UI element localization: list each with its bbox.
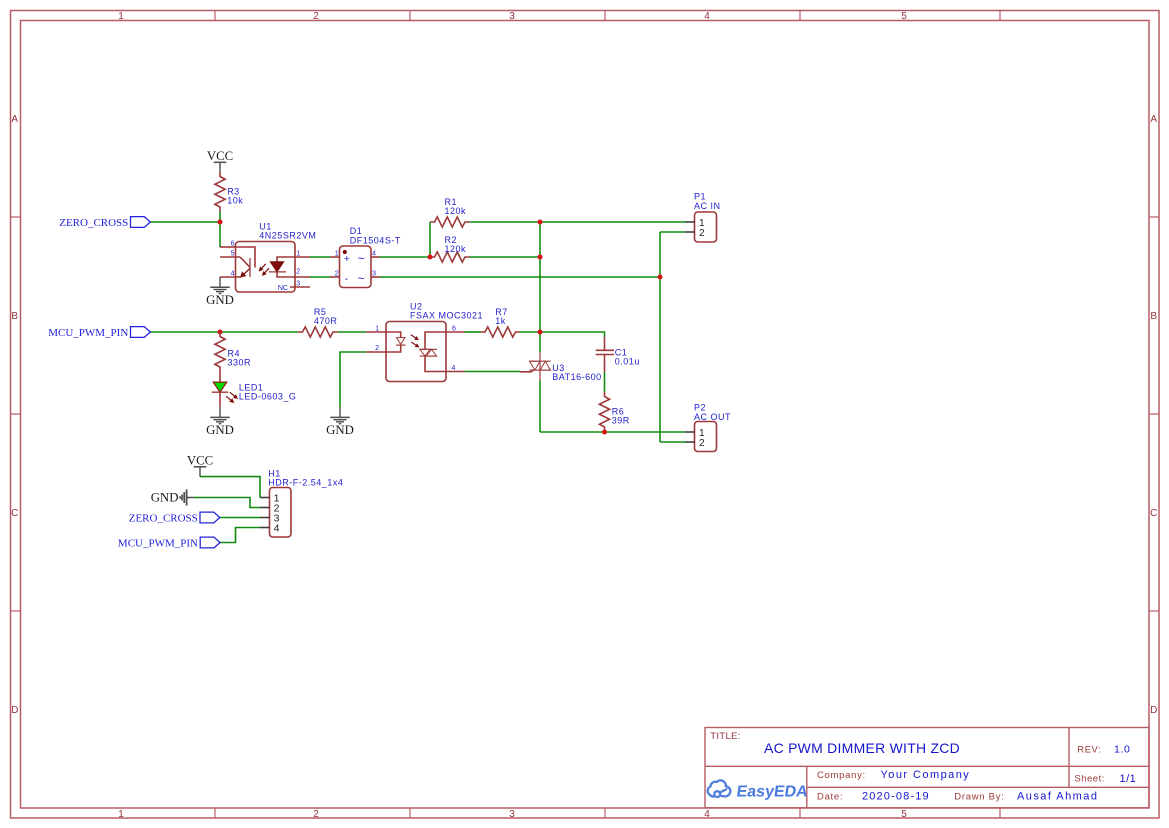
title block outline [705,728,1149,808]
frame column ticks bottom [214,808,216,818]
optocoupler U2 body [386,322,446,382]
svg-text:D: D [1150,705,1157,716]
svg-text:2: 2 [335,268,339,277]
capacitor C1 [604,337,606,351]
EasyEDA logo [708,780,731,797]
resistor R4 [215,332,225,372]
svg-text:1: 1 [335,248,339,257]
U2 pin 2 cathode [366,351,386,353]
svg-text:LED-0603_G: LED-0603_G [239,392,297,402]
svg-text:A: A [11,114,18,125]
resistor R2 [430,252,470,262]
svg-text:470R: 470R [314,316,338,326]
svg-text:+: + [344,253,350,265]
U3 gate [520,370,534,372]
svg-text:REV:: REV: [1077,745,1101,756]
U2 light arrows [411,335,416,338]
wire P1 pin2 stub run [660,231,686,233]
net flag MCU_PWM_PIN (H1) [200,537,220,548]
svg-text:Sheet:: Sheet: [1074,773,1104,784]
svg-text:2: 2 [313,809,319,820]
wire H1 MCU_PWM_PIN run [220,528,260,543]
frame row ticks left [10,216,20,218]
svg-text:1: 1 [118,11,124,22]
svg-text:4: 4 [704,11,710,22]
svg-text:MCU_PWM_PIN: MCU_PWM_PIN [118,538,198,550]
wire H1 ZERO_CROSS run [220,517,261,519]
D1 pin1 marker dot [343,250,347,254]
P1 pin 1 [686,221,695,223]
wire U2 pin4 to U3 gate [465,371,521,373]
resistor R5 [298,327,338,337]
svg-text:AC PWM DIMMER WITH ZCD: AC PWM DIMMER WITH ZCD [764,740,960,756]
resistor R3 [215,172,225,212]
net flag MCU_PWM_PIN [131,327,151,338]
power flag GND (H1, rotated) [186,490,188,506]
U2 photo-triac [425,332,446,349]
wire U2 pin6 to R7 [465,331,481,333]
svg-text:2: 2 [296,268,300,275]
junction node D1 pin3 / P1 pin2 [658,275,663,280]
junction node R6 / AC OUT [602,430,607,435]
wire R2 right to net vertical [470,256,541,258]
svg-text:1: 1 [118,809,124,820]
svg-text:3: 3 [509,11,515,22]
title block row divider 1 [705,765,1149,767]
H1 pin 3 [260,517,270,519]
wire D1 pin4 to R2 junction [380,256,431,258]
U2 internal LED [397,338,405,345]
connector H1 body [270,488,292,538]
svg-text:GND: GND [151,491,179,505]
svg-text:BAT16-600: BAT16-600 [552,372,601,382]
svg-text:VCC: VCC [187,453,213,467]
svg-text:2: 2 [699,228,705,239]
svg-text:5: 5 [231,250,235,257]
svg-text:1k: 1k [495,316,506,326]
ground GND (U1) [219,277,221,287]
svg-text:C: C [1150,508,1157,519]
svg-text:Your Company: Your Company [881,769,971,781]
svg-text:1/1: 1/1 [1120,773,1137,785]
wire U1 pin2 to D1 pin2 [310,276,330,278]
svg-text:-: - [345,273,349,285]
U1 internal LED [277,257,310,262]
net flag ZERO_CROSS [131,217,151,228]
frame row ticks right [1149,216,1159,218]
svg-text:B: B [1150,311,1157,322]
junction node AC IN / R1 [538,220,543,225]
svg-text:2: 2 [699,438,705,449]
U1 pin 5 collector [220,256,240,258]
svg-text:ZERO_CROSS: ZERO_CROSS [59,217,128,229]
svg-text:GND: GND [206,293,234,307]
svg-text:GND: GND [206,423,234,437]
D1 pin 2 [330,276,340,278]
svg-text:Company:: Company: [817,770,866,781]
svg-text:3: 3 [296,280,300,287]
svg-text:~: ~ [358,271,365,285]
connector P1 body [695,212,717,242]
svg-text:Drawn By:: Drawn By: [954,792,1004,803]
wire net vertical x540 upper [539,222,541,352]
svg-text:2: 2 [375,345,379,352]
svg-text:0.01u: 0.01u [615,357,640,367]
svg-text:5: 5 [901,11,907,22]
svg-text:MCU_PWM_PIN: MCU_PWM_PIN [48,327,128,339]
svg-text:2: 2 [313,11,319,22]
junction node ZERO_CROSS/R3 [218,220,223,225]
svg-text:Ausaf Ahmad: Ausaf Ahmad [1017,791,1098,803]
bridge rectifier D1 body [340,246,372,288]
resistor R1 [430,217,470,227]
svg-text:120k: 120k [445,244,467,254]
svg-text:4: 4 [274,523,280,535]
svg-text:4: 4 [704,809,710,820]
svg-text:NC: NC [278,285,288,292]
junction node R2 right [538,255,543,260]
svg-text:10k: 10k [227,196,243,206]
svg-text:39R: 39R [612,416,630,426]
svg-text:4N25SR2VM: 4N25SR2VM [259,231,316,241]
junction node R2 left [428,255,433,260]
triac U3 [539,352,541,380]
svg-text:VCC: VCC [207,149,233,163]
wire R7 to net junction [520,331,541,333]
wire R2 left junction up to R1 [429,222,431,257]
connector P2 body [695,422,717,452]
wire U2 pin2 to GND [340,352,366,407]
svg-text:Date:: Date: [817,792,843,803]
wire AC OUT bottom run to P2 pin1 [540,431,686,433]
svg-text:~: ~ [358,251,365,265]
wire net vertical x540 lower through to AC OUT run [539,380,541,432]
svg-text:5: 5 [901,809,907,820]
svg-text:1: 1 [375,325,379,332]
U2 pin 6 [446,331,465,333]
svg-text:4: 4 [231,270,235,277]
P2 pin 2 [686,441,695,443]
svg-text:330R: 330R [228,358,252,368]
svg-text:4: 4 [452,365,456,372]
junction node MCU/R4 [218,330,223,335]
resistor R7 [481,327,521,337]
svg-text:6: 6 [231,240,235,247]
ground GND (LED1) [219,407,221,417]
wire U1 pin1 to D1 pin1 [310,256,330,258]
svg-text:120k: 120k [445,206,467,216]
frame column ticks top [214,10,216,20]
resistor R6 [599,392,609,432]
LED LED1 [219,372,221,383]
U1 pin 3 NC [290,286,310,288]
svg-text:3: 3 [372,268,376,277]
svg-text:ZERO_CROSS: ZERO_CROSS [129,513,198,525]
svg-text:HDR-F-2.54_1x4: HDR-F-2.54_1x4 [268,478,343,488]
wire H1 VCC run [200,477,260,498]
wire R1 right to P1 pin1 [470,221,686,223]
wire ZERO_CROSS to R3 junction [150,221,220,223]
title block row divider 2 [807,786,1149,788]
U1 light arrows [262,264,266,269]
svg-text:3: 3 [509,809,515,820]
D1 pin 3 [371,276,380,278]
svg-text:1: 1 [296,250,300,257]
svg-text:AC OUT: AC OUT [694,412,731,422]
U1 pin 4 emitter [220,276,241,278]
wire H1 GND run [194,498,260,508]
svg-text:AC IN: AC IN [694,201,721,211]
junction node R7/C1/U3 [538,330,543,335]
net flag ZERO_CROSS (H1) [200,512,220,523]
title block rev/sheet cell divider [1068,728,1070,788]
P2 pin 1 [686,431,695,433]
U1 phototransistor bar [249,258,251,277]
svg-text:C: C [11,508,18,519]
svg-text:B: B [11,311,18,322]
U2 pin 1 anode [366,331,386,333]
ground GND (U2) [339,407,341,417]
U1 pin 6 base [220,246,236,248]
H1 pin 1 [260,497,270,499]
svg-text:D: D [11,705,18,716]
P1 pin 2 [686,231,695,233]
wire net junction to C1 branch [540,332,605,337]
svg-text:GND: GND [326,423,354,437]
wire D1 pin3 to P1 pin2 vertical [380,276,661,278]
H1 pin 2 [260,507,270,509]
svg-text:DF1504S-T: DF1504S-T [350,236,401,246]
svg-text:6: 6 [452,325,456,332]
wire MCU_PWM_PIN to R5 [150,331,298,333]
optocoupler U1 body [236,242,296,293]
svg-text:FSAX MOC3021: FSAX MOC3021 [410,311,483,321]
svg-text:4: 4 [372,248,376,257]
svg-text:EasyEDA: EasyEDA [735,782,809,800]
wire P2 pin2 stub run [660,441,686,443]
svg-text:A: A [1150,114,1157,125]
H1 pin 4 [260,527,270,529]
title block logo cell divider [806,766,808,808]
D1 pin 4 [371,256,380,258]
svg-text:1.0: 1.0 [1114,744,1130,756]
wire P1 pin2 vertical x660 [659,232,661,442]
wire R3 bottom to U1 pin6 [219,212,221,248]
D1 pin 1 [330,256,340,258]
svg-text:TITLE:: TITLE: [710,731,740,742]
U2 pin 4 [446,371,465,373]
wire C1 to R6 [604,372,606,392]
svg-text:2020-08-19: 2020-08-19 [862,791,930,803]
wire R5 to U2 pin1 [338,331,367,333]
LED1 light arrows [230,392,235,396]
